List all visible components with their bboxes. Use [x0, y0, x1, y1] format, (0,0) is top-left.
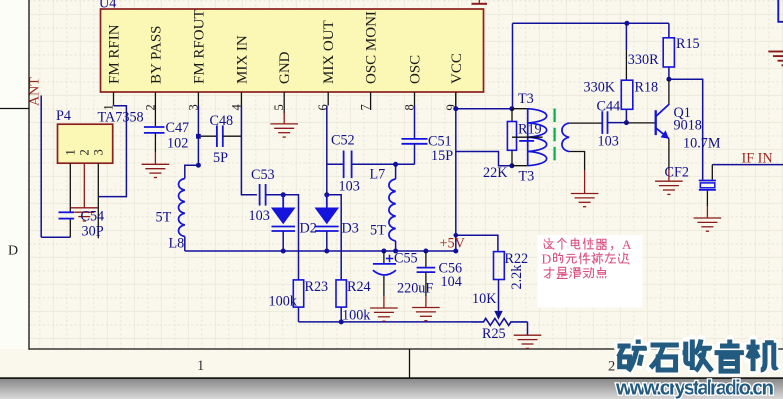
ground at Q1 emitter [655, 181, 683, 194]
U4 pin 1 stub [113, 92, 115, 106]
note text line 3 [544, 267, 554, 278]
svg-text:10K: 10K [472, 291, 497, 307]
svg-text:220uF: 220uF [397, 281, 433, 297]
U4 pin 5 stub [283, 92, 285, 106]
op-amp U4 TA7358 body [101, 9, 484, 92]
P4 pin 1 lead [69, 163, 71, 212]
wire C52 to C51 [352, 163, 415, 165]
svg-text:L8: L8 [169, 236, 185, 252]
ground at U4 pin5 [270, 124, 298, 137]
capacitor C54 [59, 211, 75, 213]
svg-text:R25: R25 [482, 326, 506, 342]
outer border bottom line [0, 377, 783, 379]
wire rail to R18 [625, 23, 627, 50]
wire pin9 R22 branch [456, 235, 498, 251]
svg-text:C54: C54 [81, 209, 105, 225]
node rail R18 branch [624, 21, 629, 26]
svg-text:330K: 330K [584, 80, 616, 96]
node pin9 T3 branch [453, 106, 458, 111]
resistor R23 [293, 280, 303, 307]
transformer T3 secondary top lead [569, 122, 602, 124]
svg-text:+5V: +5V [440, 236, 466, 252]
wire L8 bottom to +5V rail [184, 237, 186, 252]
wire C56 top lead [425, 251, 427, 268]
node D2 bottom on rail [281, 249, 286, 254]
ground at C47 [142, 164, 170, 177]
transformer T3 secondary winding [562, 123, 569, 151]
gray bottom band [0, 379, 783, 399]
resistor R19 [507, 122, 516, 151]
svg-text:IF IN: IF IN [742, 151, 773, 167]
transformer T3 primary top lead [512, 108, 528, 110]
ground at right edge [768, 52, 783, 66]
capacitor C55 [373, 263, 396, 265]
wire base black segment [626, 122, 655, 124]
wire Q1 emitter lead [668, 139, 670, 170]
U4 pin 7 stub [370, 92, 372, 106]
node C56 on rail [423, 249, 428, 254]
svg-text:2.2k: 2.2k [509, 264, 525, 290]
wire ANT bottom horizontal [41, 236, 70, 238]
svg-text:103: 103 [249, 208, 270, 224]
U4 pin 8 stub [414, 92, 416, 106]
wire Q1 collector lead [668, 79, 670, 104]
wire +5V rail [185, 250, 456, 252]
connector P4 body [58, 124, 113, 163]
wire R18 to base node [625, 109, 627, 122]
capacitor C56 [417, 267, 436, 269]
wire C44 to Q1 base node [608, 122, 627, 124]
svg-text:C52: C52 [331, 133, 355, 149]
wire C51 bottom stub [414, 144, 416, 165]
P4 pin 3 lead [97, 163, 99, 238]
svg-text:102: 102 [167, 136, 188, 152]
wire C55 top lead [383, 251, 385, 264]
svg-text:1: 1 [197, 358, 204, 374]
diode D2 [282, 195, 284, 208]
ground at C55 [370, 308, 398, 321]
svg-text:MIX IN: MIX IN [234, 35, 250, 84]
svg-text:100k: 100k [342, 308, 371, 324]
wiper arrow of R25 [494, 311, 502, 320]
svg-text:2: 2 [77, 149, 91, 155]
wire R23 bottom lead [298, 307, 300, 322]
left sheet margin [0, 0, 28, 349]
wire bottom bus to R25 [299, 321, 471, 323]
wire IF IN [712, 164, 783, 166]
wire C53 to D2 [266, 194, 284, 196]
U4 pin 4 stub [240, 92, 242, 106]
crystal CF2 symbol [699, 180, 716, 182]
node junction D3 top [324, 192, 329, 197]
transformer T3 primary bottom lead [512, 165, 528, 167]
svg-text:C48: C48 [210, 113, 234, 129]
svg-text:D: D [8, 244, 18, 259]
sheet border bottom line [29, 348, 783, 350]
wire R25 right to ground [527, 322, 529, 335]
svg-text:3: 3 [91, 149, 105, 155]
svg-text:22K: 22K [483, 165, 508, 181]
svg-text:2: 2 [608, 359, 615, 375]
svg-text:L7: L7 [370, 167, 386, 183]
ground at R25 [514, 335, 542, 348]
ground at P4 pin 2 [71, 208, 99, 221]
wire U4 pin6 down [326, 106, 328, 195]
note box white background [538, 235, 643, 308]
svg-text:FM RFIN: FM RFIN [107, 24, 123, 84]
capacitor C51 [402, 138, 428, 140]
node Q1 base junction [624, 120, 629, 125]
svg-text:D: D [542, 252, 552, 267]
svg-text:，A: ，A [609, 237, 632, 252]
resistor R24 [336, 280, 346, 307]
ground at crystal [694, 218, 722, 231]
wire D3 top branch to R24 [327, 195, 341, 280]
resistor R22 [494, 252, 505, 280]
wire R15 top lead [668, 23, 670, 38]
sheet zone divider bottom [409, 349, 411, 378]
watermark text [618, 340, 778, 372]
transformer T3 core [553, 109, 555, 167]
capacitor C44 [601, 111, 603, 134]
svg-text:C53: C53 [251, 167, 275, 183]
sheet zone divider tick left [0, 108, 29, 110]
wire U4 pin7 stub [370, 106, 372, 111]
svg-text:1: 1 [63, 149, 77, 155]
node junction D2 top [281, 192, 286, 197]
wire pin9 to T3 primary top [456, 108, 512, 110]
node T3 primary top junction [509, 106, 514, 111]
wire C56 to ground [425, 272, 427, 296]
wire U4 pin2 to C47 [154, 106, 156, 127]
resistor R18 [621, 80, 633, 109]
svg-text:R15: R15 [676, 36, 700, 52]
svg-text:GND: GND [277, 51, 293, 84]
wire U4 pin1 to P4 pin3 [98, 106, 126, 197]
capacitor C52 [343, 151, 345, 179]
wire L7 bottom lead [395, 241, 397, 251]
wire R24 bottom lead [340, 307, 342, 322]
svg-text:R18: R18 [635, 80, 659, 96]
node L7 bottom on rail [393, 249, 398, 254]
wire collector node to crystal [669, 79, 703, 180]
wire C48 left stub [201, 135, 217, 137]
svg-text:10.7M: 10.7M [683, 136, 721, 152]
U4 pin 3 stub [197, 92, 199, 106]
svg-text:R22: R22 [505, 251, 529, 267]
svg-text:FM RFOUT: FM RFOUT [191, 9, 207, 84]
svg-text:TA7358: TA7358 [98, 110, 144, 126]
wire C54 bottom to ANT [69, 219, 71, 238]
sheet border left line [28, 0, 30, 350]
wire C47 to ground [154, 133, 156, 152]
wire C55 to ground [383, 276, 385, 296]
inductor L7 [389, 179, 396, 241]
svg-text:T3: T3 [518, 91, 534, 107]
node C55 on rail [381, 249, 386, 254]
svg-text:9018: 9018 [674, 118, 702, 134]
svg-text:5T: 5T [370, 223, 386, 239]
power bar above U4 [472, 3, 488, 5]
node pin9 rail junction [453, 249, 458, 254]
svg-text:30P: 30P [82, 224, 104, 240]
wire C48 right stub [223, 135, 242, 137]
capacitor C53 [259, 184, 261, 206]
wire ANT vertical [40, 96, 42, 238]
U4 pin 2 stub [154, 92, 156, 106]
svg-text:BY PASS: BY PASS [148, 25, 164, 84]
svg-text:R24: R24 [347, 279, 371, 295]
wire top +V rail [513, 22, 669, 24]
U4 pin 6 stub [327, 92, 329, 106]
capacitor C48 [216, 125, 218, 147]
svg-text:www.crystalradio.cn: www.crystalradio.cn [615, 377, 774, 399]
partial component frame top right [778, 0, 783, 22]
wire U4 pin9 VCC vertical [455, 106, 457, 252]
wire R19 bottom lead [511, 150, 513, 165]
wire junction to L8 top [185, 165, 199, 178]
wire pin9 mid branch [456, 152, 512, 166]
svg-text:OSC MONI: OSC MONI [364, 11, 380, 84]
wire IF IN stub to crystal [711, 165, 713, 180]
svg-text:VCC: VCC [449, 53, 465, 84]
wire crystal to ground [706, 191, 708, 206]
wire C52 left stub [327, 163, 344, 165]
svg-text:5P: 5P [213, 150, 228, 166]
wire R15 bottom lead [668, 67, 670, 79]
potentiometer R25 zigzag [471, 318, 528, 325]
svg-text:6: 6 [316, 104, 330, 110]
svg-text:P4: P4 [56, 108, 71, 124]
node T3 primary bottom junction [509, 163, 514, 168]
svg-text:D3: D3 [342, 221, 359, 237]
transformer T3 primary winding [528, 109, 547, 166]
capacitor inside T3 [527, 109, 529, 166]
svg-text:C55: C55 [394, 251, 418, 267]
wire U4 pin4 down [241, 106, 257, 195]
svg-text:C44: C44 [597, 99, 621, 115]
wire U4 pin5 to ground [283, 106, 285, 114]
svg-text:104: 104 [441, 274, 462, 290]
wire U4 pin8 down [414, 106, 416, 139]
junction square at C48 left [196, 134, 201, 139]
wire D2 top branch to R23 [283, 195, 298, 280]
svg-text:OSC: OSC [408, 55, 424, 84]
wire top rail riser [512, 23, 514, 108]
P4 pin 2 lead [83, 163, 85, 207]
svg-text:C47: C47 [166, 120, 190, 136]
U4 pin 9 stub [455, 92, 457, 106]
wire R22 bottom lead [498, 280, 500, 311]
svg-text:5T: 5T [156, 210, 172, 226]
wire U4 pin3 down [197, 106, 199, 166]
svg-text:100k: 100k [269, 294, 298, 310]
node junction L7 top [393, 162, 398, 167]
svg-text:330R: 330R [628, 52, 659, 68]
diode D3 [326, 195, 328, 208]
wire L7 top lead [395, 164, 397, 179]
svg-text:CF2: CF2 [665, 165, 689, 181]
resistor R15 [663, 38, 674, 67]
capacitor C47 [144, 126, 165, 128]
svg-text:R23: R23 [305, 279, 329, 295]
node D3 bottom on rail [324, 249, 329, 254]
inductor L8 [179, 179, 185, 237]
svg-text:15P: 15P [431, 148, 453, 164]
node R15 collector junction [666, 77, 671, 82]
transformer T3 secondary bottom lead [569, 152, 585, 171]
svg-text:T3: T3 [519, 169, 535, 185]
svg-text:103: 103 [339, 179, 360, 195]
ground at C56 [412, 308, 440, 321]
note text line 1 [544, 238, 554, 249]
wire R19 top lead [511, 109, 513, 122]
svg-text:103: 103 [598, 134, 619, 150]
ground at T3 secondary [571, 194, 599, 207]
svg-text:D2: D2 [300, 221, 317, 237]
transistor Q1 [655, 110, 657, 135]
svg-text:MIX OUT: MIX OUT [321, 20, 337, 84]
node R24 on bus [339, 319, 344, 324]
node junction pin3-L8 [196, 163, 201, 168]
svg-text:ANT: ANT [28, 77, 43, 106]
